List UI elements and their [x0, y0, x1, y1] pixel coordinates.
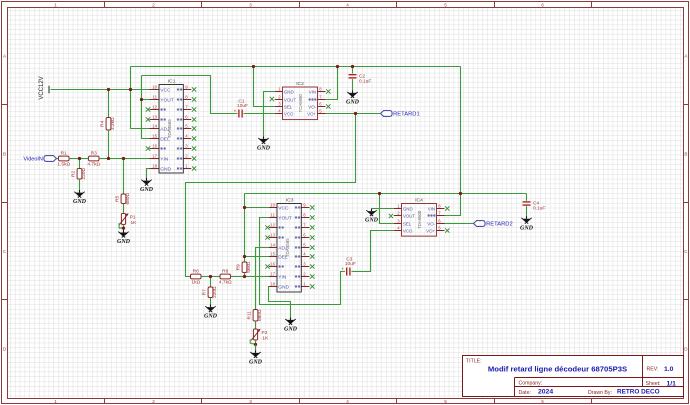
svg-text:13: 13 — [152, 114, 157, 119]
svg-text:VCC: VCC — [278, 205, 289, 211]
svg-text:VOUT: VOUT — [284, 97, 297, 102]
svg-text:3: 3 — [249, 399, 252, 404]
svg-text:R4: R4 — [100, 120, 106, 126]
svg-text:1.5kΩ: 1.5kΩ — [57, 161, 70, 167]
svg-text:12: 12 — [270, 222, 275, 227]
svg-text:680Ω: 680Ω — [125, 193, 131, 205]
svg-text:VIN: VIN — [428, 206, 435, 211]
svg-text:15: 15 — [270, 251, 275, 256]
svg-text:GND: GND — [117, 239, 131, 245]
svg-text:10: 10 — [152, 84, 157, 89]
svg-text:GND: GND — [249, 360, 263, 366]
svg-text:15: 15 — [152, 133, 157, 138]
svg-text:2: 2 — [152, 399, 155, 404]
svg-text:13: 13 — [270, 232, 275, 237]
svg-text:2024: 2024 — [538, 389, 553, 396]
svg-text:6: 6 — [541, 3, 544, 8]
svg-text:GND: GND — [403, 206, 413, 211]
svg-text:GND: GND — [346, 100, 360, 106]
svg-text:16: 16 — [270, 261, 275, 266]
svg-text:SEL: SEL — [284, 104, 293, 109]
svg-text:Modif retard ligne décodeur 68: Modif retard ligne décodeur 68705P3S — [488, 364, 627, 373]
svg-text:VO-: VO- — [427, 221, 435, 226]
svg-text:R1: R1 — [61, 151, 67, 157]
svg-text:R3: R3 — [91, 151, 97, 157]
svg-text:10uF: 10uF — [345, 261, 356, 267]
svg-text:YIN: YIN — [278, 274, 287, 280]
svg-text:GND: GND — [140, 187, 154, 193]
svg-text:R6: R6 — [193, 269, 199, 275]
svg-text:220Ω: 220Ω — [81, 168, 87, 180]
svg-text:VCC12V: VCC12V — [39, 76, 45, 99]
svg-text:Drawn By:: Drawn By: — [588, 390, 612, 396]
svg-text:VO+: VO+ — [307, 111, 316, 116]
svg-text:VOUT: VOUT — [403, 213, 416, 218]
svg-text:3: 3 — [249, 3, 252, 8]
svg-text:RETRO DECO: RETRO DECO — [617, 389, 660, 396]
svg-text:VideoIN: VideoIN — [23, 157, 42, 163]
svg-text:VCC: VCC — [160, 87, 171, 93]
svg-text:YOUT: YOUT — [160, 97, 174, 103]
svg-text:+: + — [341, 267, 344, 272]
svg-text:P2: P2 — [262, 330, 268, 336]
svg-text:VCO: VCO — [403, 228, 413, 233]
svg-text:Company:: Company: — [519, 381, 543, 387]
svg-text:TDA9500: TDA9500 — [417, 210, 422, 229]
svg-text:10uF: 10uF — [237, 103, 248, 109]
svg-text:B: B — [684, 152, 687, 157]
svg-text:SEL: SEL — [403, 221, 412, 226]
svg-text:5: 5 — [444, 399, 447, 404]
svg-text:IC2: IC2 — [296, 81, 304, 87]
svg-text:11: 11 — [153, 94, 158, 99]
svg-text:14: 14 — [270, 242, 275, 247]
svg-text:1: 1 — [54, 399, 57, 404]
svg-text:IC4: IC4 — [415, 198, 423, 204]
svg-text:GND: GND — [160, 166, 171, 172]
svg-text:11: 11 — [271, 212, 276, 217]
svg-text:GND: GND — [284, 327, 298, 333]
svg-text:Date:: Date: — [519, 390, 531, 396]
svg-text:220Ω: 220Ω — [212, 286, 218, 298]
svg-text:R7: R7 — [202, 289, 208, 295]
svg-text:5: 5 — [444, 3, 447, 8]
svg-text:GND: GND — [257, 146, 271, 152]
svg-text:VCO: VCO — [284, 111, 294, 116]
svg-text:GND: GND — [284, 89, 294, 94]
svg-text:TDA4565: TDA4565 — [167, 119, 172, 139]
svg-text:0.1uF: 0.1uF — [533, 206, 545, 212]
svg-text:17: 17 — [152, 153, 157, 158]
svg-text:P1: P1 — [130, 215, 136, 221]
svg-text:0.1uF: 0.1uF — [359, 79, 371, 85]
svg-text:4: 4 — [346, 3, 349, 8]
svg-text:14: 14 — [152, 123, 157, 128]
svg-text:VO+: VO+ — [426, 228, 435, 233]
svg-text:YIN: YIN — [160, 156, 169, 162]
svg-text:1K: 1K — [262, 336, 269, 342]
svg-text:1.0: 1.0 — [664, 366, 674, 373]
svg-text:16: 16 — [152, 143, 157, 148]
svg-text:VIN: VIN — [309, 89, 316, 94]
svg-text:RETARD1: RETARD1 — [393, 112, 420, 118]
svg-text:3.3kΩ: 3.3kΩ — [110, 117, 116, 130]
svg-text:VO-: VO- — [308, 104, 316, 109]
svg-text:6: 6 — [541, 399, 544, 404]
svg-text:1: 1 — [54, 3, 57, 8]
svg-text:IC1: IC1 — [168, 79, 176, 85]
svg-text:TDA4565: TDA4565 — [285, 238, 290, 258]
svg-text:R9: R9 — [236, 264, 242, 270]
svg-text:REV:: REV: — [647, 366, 659, 372]
svg-text:IC3: IC3 — [286, 198, 294, 204]
svg-text:GND: GND — [73, 199, 87, 205]
svg-text:R11: R11 — [247, 311, 253, 320]
svg-text:1kΩ: 1kΩ — [191, 279, 200, 285]
svg-text:GND: GND — [520, 225, 534, 231]
svg-text:B: B — [3, 152, 6, 157]
svg-text:GND: GND — [204, 314, 218, 320]
svg-text:4.7kΩ: 4.7kΩ — [219, 279, 232, 285]
svg-text:R2: R2 — [71, 170, 77, 176]
svg-text:TCA5550: TCA5550 — [298, 94, 303, 113]
svg-text:1K: 1K — [131, 220, 138, 226]
svg-text:TITLE:: TITLE: — [466, 359, 482, 365]
svg-text:18: 18 — [270, 281, 275, 286]
svg-text:+: + — [234, 109, 237, 114]
svg-text:R8: R8 — [222, 269, 228, 275]
svg-text:10: 10 — [270, 202, 275, 207]
svg-text:56kΩ: 56kΩ — [246, 261, 252, 273]
svg-text:RETARD2: RETARD2 — [486, 222, 513, 228]
svg-text:4: 4 — [346, 399, 349, 404]
svg-text:YOUT: YOUT — [278, 215, 292, 221]
svg-text:GND: GND — [278, 284, 289, 290]
svg-text:Sheet:: Sheet: — [646, 381, 661, 387]
svg-text:1/1: 1/1 — [667, 380, 677, 387]
svg-text:R5: R5 — [115, 195, 121, 201]
svg-text:4.7kΩ: 4.7kΩ — [87, 161, 100, 167]
svg-text:2: 2 — [152, 3, 155, 8]
svg-text:GND: GND — [365, 218, 379, 224]
svg-text:18: 18 — [152, 163, 157, 168]
svg-text:17: 17 — [270, 271, 275, 276]
svg-text:680Ω: 680Ω — [257, 309, 263, 321]
svg-text:12: 12 — [152, 104, 157, 109]
